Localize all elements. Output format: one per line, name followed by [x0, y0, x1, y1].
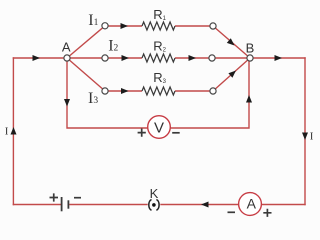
voltmeter minus sign [172, 132, 180, 134]
battery positive long plate [61, 197, 63, 211]
key K dot [152, 203, 156, 207]
terminal circle row3 right [210, 88, 216, 94]
wire row2 circle to resistor R2 [105, 57, 142, 59]
arrow right on row3 branch (I3) [121, 88, 129, 94]
wire voltmeter branch: A down, across, up to B [67, 58, 249, 128]
resistor R2 [142, 54, 175, 62]
voltmeter plus sign [138, 129, 146, 137]
wire battery to key [69, 204, 148, 206]
wire resistor R3 to right circle [175, 90, 213, 92]
svg-text:I: I [310, 130, 314, 142]
arrow up on voltmeter branch right [246, 95, 252, 103]
arrow right on row1 branch (I1) [121, 23, 129, 29]
key K left parenthesis [149, 200, 152, 211]
wire resistor R2 to right circle [175, 57, 212, 59]
arrow up on left vertical wire [11, 127, 17, 135]
wire top-right B to corner [250, 57, 306, 59]
svg-text:B: B [246, 41, 255, 56]
wire row1 circle to resistor R1 [105, 25, 142, 27]
wire A to I3 circle diagonal [67, 58, 105, 91]
arrow down on voltmeter branch left [64, 99, 70, 107]
arrow on diagonal row1-to-B [227, 38, 235, 45]
terminal circle row1 left [102, 23, 108, 29]
arrow right on row2 branch (I2) [122, 55, 130, 61]
svg-text:A: A [247, 196, 257, 212]
wire row3 right circle to node B diagonal [213, 58, 250, 91]
wire bottom-left corner to battery [13, 204, 61, 206]
svg-text:K: K [150, 186, 159, 201]
battery minus sign [74, 197, 81, 199]
arrow into node A (current I) [33, 55, 41, 61]
wire A to I1 circle diagonal [67, 26, 105, 58]
key K right parenthesis [156, 200, 159, 211]
arrow right after node B [275, 55, 283, 61]
battery negative short plate [67, 200, 69, 208]
arrow right on row2 before right circle [189, 55, 197, 61]
wire key to bottom-right corner [160, 204, 305, 206]
wire left vertical [12, 57, 14, 205]
terminal circle row2 right [209, 55, 215, 61]
wire row1 right circle to node B diagonal [213, 26, 250, 58]
terminal circle row1 right [210, 23, 216, 29]
terminal circle row2 left [102, 55, 108, 61]
ammeter plus sign [263, 209, 271, 217]
svg-text:I: I [5, 126, 9, 138]
wire A to I2 circle [67, 57, 105, 59]
resistor R3 [142, 87, 175, 95]
arrow on diagonal row3-to-B [228, 71, 236, 78]
resistor R1 [142, 22, 175, 30]
battery plus sign [50, 193, 59, 201]
wire resistor R1 to right circle [175, 25, 213, 27]
arrow left on bottom wire [201, 202, 209, 208]
svg-text:A: A [62, 39, 71, 54]
ammeter minus sign [228, 211, 236, 213]
wire right vertical [304, 57, 306, 205]
wire row2 right circle to node B [212, 57, 250, 59]
node A [64, 55, 70, 61]
node B [247, 55, 253, 61]
terminal circle row3 left [102, 88, 108, 94]
ammeter A circle [239, 193, 262, 216]
voltmeter V circle [148, 116, 171, 139]
svg-text:V: V [154, 119, 164, 136]
wire row3 circle to resistor R3 [105, 90, 142, 92]
arrow down on right vertical wire [302, 133, 308, 141]
wire left-top from corner to node A [13, 57, 64, 59]
